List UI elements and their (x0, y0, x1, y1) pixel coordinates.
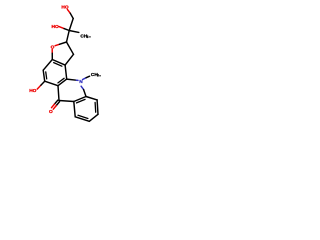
bond R3-R4 (89, 114, 98, 121)
bond C2-C3 (67, 42, 74, 54)
bond C2-O3 (furan O) (55, 42, 66, 46)
svg-text:N: N (79, 79, 83, 85)
svg-text:HO: HO (52, 24, 59, 30)
svg-text:HO: HO (29, 88, 36, 94)
aromatic bond R4=R5 (75, 115, 89, 121)
bond C3a-La (65, 65, 67, 79)
bond C12-O2 (quaternary C to HO left) (59, 27, 69, 31)
double bond C9=O5 (ketone) (51, 100, 59, 109)
bond O1-C11 (HO top to CH2) (67, 9, 73, 18)
bond Ra-R2 (86, 97, 97, 100)
svg-text:HO: HO (61, 5, 68, 11)
bond N-C14 (N to CH3 label) (83, 76, 90, 79)
svg-text:O: O (49, 109, 53, 115)
bond C3-C3a (65, 54, 73, 65)
bond O3-C7a (vertical) (51, 49, 53, 59)
aromatic bond Ra=Rb (74, 97, 86, 103)
bond C5-O4 (phenol HO) (37, 81, 45, 89)
bond C12-C2 (67, 31, 70, 43)
bond Lb-C5 (45, 81, 58, 86)
svg-text:3: 3 (97, 74, 99, 78)
aromatic bond La=Lb (58, 78, 67, 85)
bond N-Ra (81, 86, 86, 96)
aromatic bond C7a=C3a (52, 60, 65, 67)
svg-text:O: O (51, 45, 55, 51)
bond R5-Rb (74, 102, 75, 117)
bond C9-Rb (59, 101, 74, 102)
bond C6t-C7a (43, 60, 52, 71)
aromatic bond R2=R3 (95, 100, 98, 114)
bond La-N (67, 79, 78, 80)
aromatic bond C5=C6t (43, 70, 47, 81)
bond Lb-C9 (58, 86, 59, 101)
svg-text:3: 3 (87, 35, 89, 39)
bond C12-C13 (to CH3 label) (69, 31, 79, 33)
bond C11-C12 (CH2 to quaternary C) (69, 19, 73, 31)
